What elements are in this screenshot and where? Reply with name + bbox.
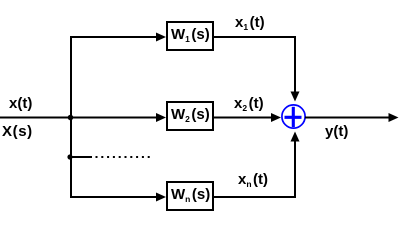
wire Wn output to summer [214,141,295,198]
svg-text:x(t): x(t) [9,95,32,112]
arrowhead left into summer [271,113,281,122]
svg-text:xn(t): xn(t) [238,171,268,189]
wire input x(t) [0,117,158,119]
wire to W1 [70,36,158,38]
svg-text:x2(t): x2(t) [234,95,264,113]
block W2 [167,102,213,130]
summing junction circle [282,105,305,128]
wire branch vertical [70,36,72,198]
dotted continuation line [96,156,153,158]
arrowhead into block W1 [156,33,166,42]
summing junction plus [285,116,302,119]
arrowhead into block Wn [156,193,166,202]
block W1 [167,22,213,50]
block Wn [167,182,213,210]
arrowhead up into summer [291,132,300,142]
svg-text:X(s): X(s) [2,123,33,140]
wire output y(t) [305,117,390,119]
wire dotted stub [71,156,92,158]
wire W2 output to summer [214,117,273,119]
svg-text:y(t): y(t) [325,123,348,140]
arrowhead output [389,113,399,122]
arrowhead down into summer [291,92,300,102]
wire to Wn [70,196,158,198]
wire W1 output to summer [214,37,295,93]
node branch junction [68,115,74,121]
node dotted junction [67,154,72,159]
arrowhead into block W2 [156,113,166,122]
svg-text:x1(t): x1(t) [235,14,265,32]
